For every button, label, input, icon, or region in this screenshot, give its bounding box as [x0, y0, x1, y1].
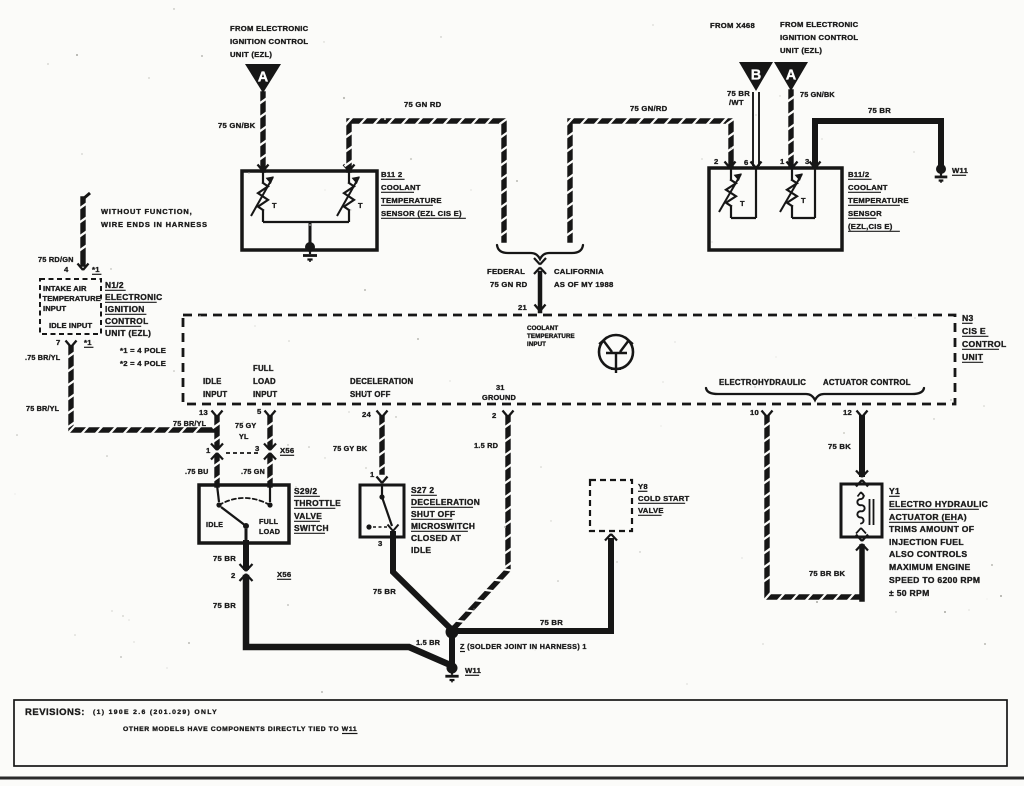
svg-text:CONTROL: CONTROL — [105, 316, 149, 326]
svg-text:COOLANT: COOLANT — [381, 183, 421, 192]
wire 75 GY YL from N3 pin 5 to throttle switch full load contact — [266, 418, 275, 502]
svg-text:2: 2 — [492, 411, 497, 420]
wire from N3 pin 10 to Y1 bottom — [763, 418, 859, 601]
solenoid coil inside Y1 — [856, 492, 866, 534]
svg-text:(1) 190E 2.6 (201.029) ONLY: (1) 190E 2.6 (201.029) ONLY — [93, 709, 218, 716]
svg-text:75 GN/BK: 75 GN/BK — [800, 90, 835, 99]
svg-text:SHUT OFF: SHUT OFF — [411, 509, 455, 519]
svg-text:INJECTION FUEL: INJECTION FUEL — [889, 537, 964, 547]
svg-text:24: 24 — [362, 410, 372, 419]
svg-text:1: 1 — [206, 446, 211, 455]
svg-text:CONTROL: CONTROL — [962, 339, 1007, 349]
svg-text:75 BR: 75 BR — [213, 554, 236, 563]
svg-text:SENSOR: SENSOR — [848, 209, 882, 218]
svg-text:Z (SOLDER JOINT IN HARNESS) 1: Z (SOLDER JOINT IN HARNESS) 1 — [460, 642, 587, 651]
ground W11 (top right) — [935, 164, 948, 183]
svg-text:ELECTRO HYDRAULIC: ELECTRO HYDRAULIC — [889, 499, 988, 509]
svg-text:DECELERATION: DECELERATION — [411, 497, 480, 507]
wire from split to N3 pin 21 — [538, 273, 543, 311]
svg-text:FROM ELECTRONIC: FROM ELECTRONIC — [230, 24, 309, 33]
svg-text:ALSO CONTROLS: ALSO CONTROLS — [889, 549, 967, 559]
svg-text:UNIT (EZL): UNIT (EZL) — [105, 328, 151, 338]
wire 75 BR/WT from arrow B to B11/2 pin 6 (double line) — [753, 92, 759, 166]
svg-text:± 50 RPM: ± 50 RPM — [889, 588, 930, 598]
label CALIFORNIA AS OF MY 1988 — [554, 267, 614, 289]
pin 7 of N1/2 — [56, 338, 93, 347]
connector at Y1 bottom — [856, 535, 862, 542]
svg-text:UNIT: UNIT — [962, 352, 984, 362]
svg-text:X56: X56 — [277, 570, 291, 579]
svg-text:4: 4 — [64, 265, 69, 274]
label FULL LOAD inside S29/2 — [259, 517, 280, 536]
label 31 GROUND inside N3 — [482, 383, 517, 402]
svg-text:75 GN RD: 75 GN RD — [404, 100, 442, 109]
pin 21 of N3 — [518, 303, 546, 312]
component box B11 2 coolant temperature sensor (EZL CIS E) — [242, 171, 377, 250]
svg-text:ELECTROHYDRAULIC: ELECTROHYDRAULIC — [719, 378, 806, 387]
svg-text:75 BR: 75 BR — [540, 618, 563, 627]
ground W11 (bottom) — [445, 663, 458, 683]
pin 13 of N3 (idle input) — [199, 408, 223, 417]
wire label 75 GY YL — [235, 421, 256, 441]
connector arrow A (left, from EZL) — [245, 64, 281, 93]
svg-text:S29/2: S29/2 — [294, 486, 317, 496]
svg-text:COLD START: COLD START — [638, 494, 690, 503]
label COOLANT TEMPERATURE INPUT inside N3 — [527, 325, 575, 348]
svg-text:75 GN RD: 75 GN RD — [490, 280, 528, 289]
svg-text:ELECTRONIC: ELECTRONIC — [105, 292, 162, 302]
label IDLE INPUT inside N3 — [203, 377, 227, 399]
svg-text:.75 GN: .75 GN — [241, 467, 265, 476]
svg-text:*1: *1 — [92, 265, 100, 274]
svg-text:13: 13 — [199, 408, 208, 417]
thermistor 1 in B11 2 — [251, 171, 277, 222]
label Y1 ELECTROHYDRAULIC ACTUATOR (EHA) description — [889, 486, 988, 598]
solder joint Z in harness — [446, 626, 459, 639]
internal wire joining thermistors — [263, 221, 349, 223]
footnotes *1 = 4 POLE / *2 = 4 POLE — [120, 346, 166, 368]
svg-text:T: T — [801, 196, 806, 205]
svg-text:N3: N3 — [962, 313, 974, 323]
label B11 2 COOLANT TEMPERATURE SENSOR (EZL CIS E) — [381, 170, 466, 218]
pin 5 of N3 (full load input) — [257, 407, 276, 417]
wire label 75 BR /WT — [727, 89, 750, 107]
wire from solder joint to ground W11 — [449, 632, 455, 666]
svg-text:1.5 RD: 1.5 RD — [474, 441, 499, 450]
svg-text:FEDERAL: FEDERAL — [487, 267, 525, 276]
svg-text:VALVE: VALVE — [638, 506, 664, 515]
brace merging federal and california wires — [497, 245, 583, 259]
svg-text:INTAKE AIR: INTAKE AIR — [43, 284, 87, 293]
svg-text:W11: W11 — [465, 666, 482, 675]
svg-text:TEMPERATURE: TEMPERATURE — [527, 333, 575, 340]
svg-text:W11: W11 — [952, 166, 969, 175]
svg-text:75 GY BK: 75 GY BK — [333, 444, 368, 453]
svg-text:75 BR BK: 75 BR BK — [809, 569, 846, 578]
svg-text:1.5 BR: 1.5 BR — [416, 638, 441, 647]
coolant sensor symbol inside N3 — [599, 335, 633, 373]
svg-text:AS OF MY 1988: AS OF MY 1988 — [554, 280, 614, 289]
svg-text:TEMPERATURE: TEMPERATURE — [43, 294, 101, 303]
pin 6 of B11/2 — [744, 158, 762, 168]
svg-text:31: 31 — [496, 383, 505, 392]
svg-text:10: 10 — [750, 408, 759, 417]
connector arrow B (from X468) — [739, 62, 773, 91]
pin 10 of N3 — [750, 408, 773, 417]
svg-text:TEMPERATURE: TEMPERATURE — [381, 196, 442, 205]
component dashed box N3 CIS E control unit — [183, 315, 955, 404]
component box S29/2 throttle valve switch — [199, 485, 289, 543]
svg-text:75 GY: 75 GY — [235, 421, 256, 430]
svg-text:SHUT OFF: SHUT OFF — [350, 390, 391, 399]
wire 75 BK from N3 pin 12 to Y1 top — [859, 418, 865, 474]
label S27 2 DECELERATION SHUT OFF MICROSWITCH CLOSED AT IDLE — [411, 485, 480, 555]
switch lever of S29/2 — [221, 507, 249, 529]
connector in federal/california wire — [534, 258, 540, 265]
connector 3 of X56 — [255, 444, 276, 460]
svg-text:COOLANT: COOLANT — [848, 183, 888, 192]
wire 75 BR from X56 to W11 run — [246, 578, 448, 664]
microswitch internals of S27/2 — [366, 485, 392, 530]
svg-text:75 BR: 75 BR — [373, 587, 396, 596]
idle contact of S29/2 — [216, 502, 221, 507]
connector housing X56 dashed link — [226, 452, 261, 454]
pin 2 of N3 (ground) — [492, 411, 514, 421]
svg-text:*1 = 4 POLE: *1 = 4 POLE — [120, 346, 166, 355]
svg-text:(EZL,CIS E): (EZL,CIS E) — [848, 222, 893, 231]
svg-text:/WT: /WT — [729, 98, 744, 107]
label: FROM ELECTRONIC IGNITION CONTROL UNIT (EZL) - left — [230, 24, 309, 59]
wire 75 GN RD from B11 2 to federal split — [345, 117, 509, 240]
pin at B11 2 top left — [258, 165, 264, 172]
svg-text:INPUT: INPUT — [203, 390, 227, 399]
svg-text:N1/2: N1/2 — [105, 280, 124, 290]
svg-text:CIS E: CIS E — [962, 326, 986, 336]
pin 24 of N3 (deceleration shut off) — [362, 410, 388, 419]
wire 75 BR from S27/2 pin 3 to solder joint — [393, 534, 452, 630]
svg-text:3: 3 — [805, 157, 810, 166]
svg-text:75 BR/YL: 75 BR/YL — [26, 404, 60, 413]
svg-text:INPUT: INPUT — [253, 390, 277, 399]
svg-text:.75 BR/YL: .75 BR/YL — [25, 353, 61, 362]
svg-text:A: A — [258, 70, 269, 86]
label S29/2 THROTTLE VALVE SWITCH — [294, 486, 341, 533]
svg-text:1: 1 — [780, 157, 785, 166]
svg-text:75 RD/GN: 75 RD/GN — [38, 255, 74, 264]
svg-text:TRIMS AMOUNT OF: TRIMS AMOUNT OF — [889, 524, 974, 534]
svg-text:T: T — [740, 199, 745, 208]
svg-text:*1: *1 — [84, 338, 92, 347]
svg-text:CALIFORNIA: CALIFORNIA — [554, 267, 604, 276]
wire 75 BR/YL from N3 pin 13 to throttle switch idle contact — [213, 418, 222, 502]
svg-text:TEMPERATURE: TEMPERATURE — [848, 196, 909, 205]
label N3 CIS E CONTROL UNIT — [962, 313, 1007, 362]
label FROM ELECTRONIC IGNITION CONTROL UNIT (EZL) - right — [780, 20, 859, 55]
component box B11/2 coolant temperature sensor (EZL,CIS E) — [709, 168, 842, 250]
svg-text:UNIT (EZL): UNIT (EZL) — [230, 50, 272, 59]
pin 4 of N1/2 — [64, 264, 101, 275]
svg-text:75 BR: 75 BR — [868, 106, 891, 115]
svg-text:B11 2: B11 2 — [381, 170, 402, 179]
svg-text:.75 BU: .75 BU — [185, 467, 209, 476]
wire 1.5 RD from N3 pin 2 to solder joint — [454, 418, 513, 628]
svg-text:75 BR/YL: 75 BR/YL — [173, 419, 207, 428]
wire .75 BR/YL from N1/2 pin 7 to throttle switch — [67, 348, 216, 434]
svg-text:3: 3 — [255, 444, 260, 453]
pin at B11 2 top right — [344, 165, 350, 172]
svg-text:2: 2 — [231, 571, 236, 580]
svg-text:IGNITION CONTROL: IGNITION CONTROL — [230, 37, 308, 46]
svg-text:CLOSED AT: CLOSED AT — [411, 533, 462, 543]
svg-text:75 GN/RD: 75 GN/RD — [630, 104, 668, 113]
thermistor 1 in B11/2 (pins 2-6) — [719, 168, 756, 218]
component dashed box N1/2 (intake air temperature input / idle input) — [40, 279, 101, 334]
svg-text:WITHOUT FUNCTION,: WITHOUT FUNCTION, — [101, 207, 193, 216]
svg-text:GROUND: GROUND — [482, 393, 517, 402]
svg-text:1: 1 — [370, 470, 375, 479]
svg-text:75 BR: 75 BR — [213, 601, 236, 610]
svg-text:B11/2: B11/2 — [848, 170, 869, 179]
svg-text:21: 21 — [518, 303, 528, 312]
svg-text:VALVE: VALVE — [294, 511, 322, 521]
label WITHOUT FUNCTION, WIRE ENDS IN HARNESS — [101, 207, 208, 229]
component box Y1 electrohydraulic actuator — [841, 484, 882, 537]
brace under actuator control label — [706, 388, 924, 400]
svg-text:IGNITION: IGNITION — [105, 304, 145, 314]
svg-text:SENSOR (EZL CIS E): SENSOR (EZL CIS E) — [381, 209, 462, 218]
connector at Y1 top — [856, 471, 862, 478]
svg-text:2: 2 — [714, 157, 719, 166]
svg-text:DECELERATION: DECELERATION — [350, 377, 414, 386]
svg-text:T: T — [272, 201, 277, 210]
svg-text:ACTUATOR (EHA): ACTUATOR (EHA) — [889, 512, 967, 522]
pin 3 of S27/2 — [378, 525, 399, 549]
label N1/2 ELECTRONIC IGNITION CONTROL UNIT (EZL) — [105, 280, 162, 338]
pin 3 of B11/2 — [805, 157, 821, 168]
svg-text:REVISIONS:: REVISIONS: — [25, 707, 85, 718]
label Y8 COLD START VALVE — [638, 482, 690, 515]
svg-text:OTHER MODELS HAVE COMPONENTS D: OTHER MODELS HAVE COMPONENTS DIRECTLY TI… — [123, 726, 357, 733]
label FEDERAL 75 GN RD — [487, 267, 528, 289]
svg-text:3: 3 — [378, 539, 383, 548]
svg-text:LOAD: LOAD — [259, 527, 280, 536]
svg-text:SPEED TO 6200 RPM: SPEED TO 6200 RPM — [889, 575, 980, 585]
svg-text:IGNITION CONTROL: IGNITION CONTROL — [780, 33, 858, 42]
svg-text:75 BR: 75 BR — [727, 89, 750, 98]
svg-text:6: 6 — [744, 158, 749, 167]
wire 75 GN/BK from arrow A to B11/2 pin 1 — [787, 92, 796, 166]
svg-text:*2 = 4 POLE: *2 = 4 POLE — [120, 359, 166, 368]
svg-text:A: A — [786, 68, 797, 84]
revisions box — [14, 700, 1007, 766]
svg-text:X56: X56 — [280, 446, 294, 455]
svg-text:WIRE ENDS IN HARNESS: WIRE ENDS IN HARNESS — [101, 220, 208, 229]
svg-text:IDLE: IDLE — [411, 545, 431, 555]
svg-text:FROM X468: FROM X468 — [710, 21, 755, 30]
thermistor 2 in B11 2 — [337, 171, 363, 222]
pin 1 of B11/2 — [780, 157, 798, 168]
svg-text:B: B — [751, 68, 761, 84]
svg-text:5: 5 — [257, 407, 262, 416]
svg-text:FULL: FULL — [259, 517, 279, 526]
svg-text:SWITCH: SWITCH — [294, 523, 329, 533]
svg-text:INPUT: INPUT — [527, 341, 546, 348]
svg-text:75 BK: 75 BK — [828, 442, 851, 451]
ground symbol below B11 2 — [303, 250, 317, 262]
wire 75 BR from Y8 to solder joint — [458, 541, 611, 631]
svg-text:12: 12 — [843, 408, 852, 417]
dashed travel arc of S29/2 — [219, 498, 270, 505]
svg-text:Y1: Y1 — [889, 486, 900, 496]
svg-text:COOLANT: COOLANT — [527, 325, 558, 332]
svg-text:ACTUATOR CONTROL: ACTUATOR CONTROL — [823, 378, 911, 387]
label DECELERATION SHUT OFF inside N3 — [350, 377, 414, 399]
pin of Y8 — [605, 534, 611, 541]
wire 75 GN/RD from california split to B11/2 pin 2 — [566, 117, 736, 240]
connector 1 of X56 — [206, 444, 223, 460]
label B11/2 COOLANT TEMPERATURE SENSOR (EZL,CIS E) — [848, 170, 909, 231]
svg-text:Y8: Y8 — [638, 482, 648, 491]
label FULL LOAD INPUT inside N3 — [253, 364, 277, 399]
svg-text:IDLE: IDLE — [206, 520, 223, 529]
internal ground drop of B11 2 — [305, 222, 315, 252]
svg-text:FROM ELECTRONIC: FROM ELECTRONIC — [780, 20, 859, 29]
svg-text:FULL: FULL — [253, 364, 274, 373]
component dashed box Y8 cold start valve — [590, 480, 632, 531]
wire 75 GY BK from N3 pin 24 to S27/2 — [378, 418, 387, 472]
svg-text:UNIT (EZL): UNIT (EZL) — [780, 46, 822, 55]
label ELECTROHYDRAULIC ACTUATOR CONTROL inside N3 — [719, 378, 911, 387]
svg-text:S27 2: S27 2 — [411, 485, 434, 495]
svg-text:T: T — [358, 201, 363, 210]
label Z (SOLDER JOINT IN HARNESS) 1 — [460, 642, 587, 652]
svg-text:IDLE: IDLE — [203, 377, 222, 386]
stub wire 75 RD/GN without function — [79, 193, 91, 264]
wire 75 BR BK from Y1 bottom to pin 10 run — [859, 547, 865, 599]
armature bars inside Y1 — [870, 499, 874, 525]
svg-text:THROTTLE: THROTTLE — [294, 498, 341, 508]
svg-text:MICROSWITCH: MICROSWITCH — [411, 521, 475, 531]
wire 75 GN/BK from arrow A down to sensor B11 2 — [259, 94, 268, 170]
svg-text:7: 7 — [56, 338, 61, 347]
bottom scan edge line — [0, 777, 1024, 780]
pin 12 of N3 — [843, 408, 868, 417]
thermistor 2 in B11/2 (pins 1-3) — [780, 168, 815, 218]
svg-text:IDLE INPUT: IDLE INPUT — [49, 321, 92, 330]
svg-text:INPUT: INPUT — [43, 304, 67, 313]
full load contact of S29/2 — [267, 502, 272, 507]
pin 2 of B11/2 — [714, 157, 736, 168]
component box S27/2 deceleration shut off microswitch — [360, 485, 404, 537]
wire 75 BR from S29/2 common down — [245, 529, 248, 567]
svg-text:LOAD: LOAD — [253, 377, 276, 386]
svg-text:MAXIMUM ENGINE: MAXIMUM ENGINE — [889, 562, 971, 572]
svg-text:YL: YL — [239, 432, 249, 441]
wire 75 BR from B11/2 pin 3 to ground W11 — [815, 121, 941, 166]
connector pin 1 of S27/2 — [370, 470, 388, 483]
svg-text:75 GN/BK: 75 GN/BK — [218, 121, 256, 130]
connector arrow A (right, from EZL) — [774, 62, 808, 91]
connector 2 of X56 — [231, 564, 253, 581]
